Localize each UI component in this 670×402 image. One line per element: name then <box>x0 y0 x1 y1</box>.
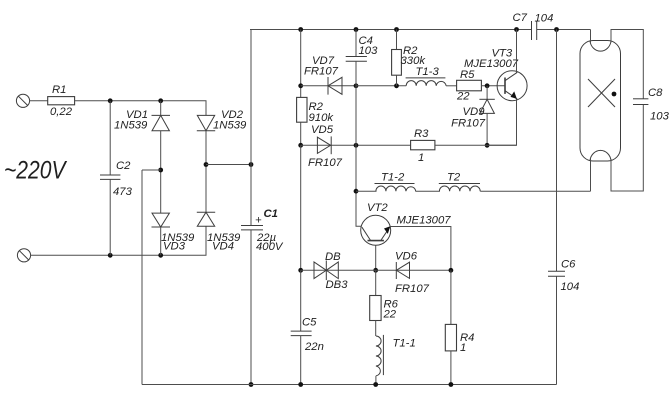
svg-text:R3: R3 <box>414 128 429 140</box>
bottom rail <box>142 384 557 386</box>
node: diac left junction <box>298 268 303 273</box>
resistor R4 <box>445 270 474 384</box>
svg-text:400V: 400V <box>256 241 284 253</box>
diode VD6 FR107 <box>395 251 430 296</box>
input terminal X2 (bottom) <box>17 249 30 262</box>
svg-text:VD6: VD6 <box>395 251 418 263</box>
diode VD2 1N539 <box>197 109 247 132</box>
svg-text:T1-3: T1-3 <box>416 66 440 78</box>
wire lamp top-left pin <box>590 30 592 43</box>
wire VT3 collector to top rail <box>516 30 518 73</box>
node: C2 top junction <box>108 98 113 103</box>
node: C4 column at wire 85.8 <box>354 83 359 88</box>
inductor T1-2 <box>375 172 416 192</box>
node: top rail at R2 330k <box>394 27 399 32</box>
lamp cross mark <box>588 79 615 107</box>
node: VD1 cathode junction <box>158 98 163 103</box>
lamp bottom filament dome <box>590 150 611 160</box>
transistor VT2 MJE13007 <box>361 202 452 245</box>
svg-text:~220V: ~220V <box>4 157 67 185</box>
resistor R5 <box>456 69 481 103</box>
top rail right of C7 <box>537 29 591 31</box>
node: C1 at bottom rail <box>249 382 254 387</box>
capacitor C4 <box>346 30 378 86</box>
diode VD3 1N539 <box>152 213 196 252</box>
wire VT2 emitter to R4 column <box>390 227 451 271</box>
svg-text:C8: C8 <box>648 87 663 99</box>
node: top rail at C4 column <box>354 27 359 32</box>
wire VT3 emitter down and to R3 node <box>487 99 516 146</box>
wire lamp bottom-left pin <box>590 159 592 191</box>
svg-text:1: 1 <box>460 342 466 354</box>
wire lamp bottom-right pin to C8 <box>611 105 643 192</box>
svg-text:C5: C5 <box>302 317 317 329</box>
capacitor C8 <box>633 87 670 123</box>
wire plus tap to C1 column <box>206 164 251 166</box>
svg-text:VD4: VD4 <box>212 241 234 253</box>
wire AC2: terminal to VD4 corner <box>31 226 206 255</box>
wire diac node down to C5 <box>300 270 302 331</box>
wire VD1 anode to VD3 anode <box>160 131 162 213</box>
node: plus tap at C1 column <box>249 162 254 167</box>
node: C6 column at top rail <box>554 27 559 32</box>
svg-text:FR107: FR107 <box>308 157 343 169</box>
svg-text:R1: R1 <box>52 84 66 96</box>
node: VD6 anode / emitter / R4 junction <box>449 268 454 273</box>
svg-text:R5: R5 <box>460 69 475 81</box>
wire y=85.8 VD7 node to C4 column <box>301 85 356 87</box>
diode VD1 1N539 <box>114 101 170 132</box>
resistor R3 <box>411 128 435 164</box>
inductor T2 <box>439 172 480 192</box>
wire AC1: R1 to VD2 corner <box>75 101 206 116</box>
svg-text:DB3: DB3 <box>326 279 349 291</box>
svg-text:104: 104 <box>535 13 554 25</box>
svg-text:910k: 910k <box>309 112 335 124</box>
capacitor C5 <box>291 317 324 354</box>
svg-text:VT2: VT2 <box>367 202 388 214</box>
wire R2 910k to VD5 node <box>300 122 302 145</box>
diac DB DB3 <box>314 251 348 291</box>
svg-text:1: 1 <box>418 152 424 164</box>
inductor T1-3 <box>406 66 447 86</box>
node: C2 bottom junction <box>108 253 113 258</box>
svg-text:22: 22 <box>456 91 470 103</box>
node: VD9 anode / R3 right junction <box>485 143 490 148</box>
svg-text:0,22: 0,22 <box>50 106 73 118</box>
wire C6 column down <box>556 30 558 272</box>
svg-text:+: + <box>255 215 262 227</box>
lamp tube EL1 <box>580 41 621 162</box>
lamp top filament dome <box>590 41 611 51</box>
svg-text:T2: T2 <box>447 172 461 184</box>
wire y=191 midpoint to lamp <box>356 190 377 192</box>
svg-text:1N539: 1N539 <box>114 120 148 132</box>
resistor R2 910k <box>297 97 335 124</box>
svg-text:C6: C6 <box>561 259 576 271</box>
svg-text:22n: 22n <box>304 341 324 353</box>
svg-text:FR107: FR107 <box>451 118 486 130</box>
wire negative tap to left column <box>142 169 161 171</box>
capacitor C6 <box>548 259 579 294</box>
wire R5 to VT3 base <box>481 85 505 87</box>
svg-text:VD9: VD9 <box>463 106 486 118</box>
diode VD9 FR107 <box>451 86 495 146</box>
svg-text:22: 22 <box>383 309 397 321</box>
wire left column down to bottom rail <box>141 170 143 385</box>
wire lamp top-right pin to right rail <box>611 30 643 99</box>
svg-text:T1-2: T1-2 <box>381 172 405 184</box>
wire y=145.3 VD5 node to R3 <box>301 144 411 146</box>
svg-text:DB: DB <box>325 251 341 263</box>
svg-text:VD3: VD3 <box>163 241 186 253</box>
node: top rail at VT3 collector <box>514 27 519 32</box>
inductor T1-1 <box>376 321 416 385</box>
node: VD5 anode junction <box>298 143 303 148</box>
node: midpoint column at wire 145.3 <box>354 143 359 148</box>
wire R3 to VT3 emitter corner <box>435 144 517 146</box>
input terminal X1 (top) <box>16 94 29 107</box>
svg-text:103: 103 <box>359 45 379 57</box>
svg-text:FR107: FR107 <box>395 283 430 295</box>
diode VD4 1N539 <box>197 212 241 252</box>
wire C1 bottom to bottom rail <box>250 230 252 385</box>
node: midpoint at wire 191 <box>354 189 359 194</box>
svg-text:VD5: VD5 <box>311 124 334 136</box>
svg-text:473: 473 <box>113 186 133 198</box>
capacitor C2 <box>100 101 133 256</box>
node: VT2 base drive junction <box>373 268 378 273</box>
transistor VT3 MJE13007 <box>464 48 527 101</box>
top rail left segment <box>250 29 532 31</box>
wire VD3 cathode to AC2 <box>160 227 162 255</box>
node: negative tap junction <box>158 168 163 173</box>
wire x=301 column top rail to R2 910k <box>300 30 302 98</box>
wire terminal to R1 <box>30 100 48 102</box>
svg-text:103: 103 <box>650 111 670 123</box>
svg-text:MJE13007: MJE13007 <box>464 58 519 70</box>
wire y=85.8 C4 column to T1-3 <box>356 85 406 87</box>
node: R4 at bottom rail <box>449 382 454 387</box>
midpoint column x=356 down to VT2 collector <box>356 86 361 227</box>
wire C5 to bottom rail <box>300 336 302 385</box>
wire VT2 base down to drive node <box>375 245 377 270</box>
resistor R2 330k <box>392 30 427 86</box>
node: VT3 base / VD9 junction <box>485 83 490 88</box>
diode VD5 FR107 <box>308 124 343 169</box>
node: plus tap at VD2/VD4 column <box>204 162 209 167</box>
svg-text:104: 104 <box>561 281 580 293</box>
wire y=270.3 diac node to VD6 to R4 column <box>301 269 451 271</box>
wire C6 bottom to bottom rail <box>556 276 558 384</box>
node: VD7 cathode junction <box>298 83 303 88</box>
node: top rail at x=301 <box>298 27 303 32</box>
capacitor C7 <box>513 12 554 40</box>
resistor R6 <box>370 270 399 320</box>
node: C5 at bottom rail <box>298 382 303 387</box>
lamp dot mark <box>612 92 617 97</box>
wire x=301 column down to diac node <box>300 145 302 270</box>
svg-text:T1-1: T1-1 <box>393 338 416 350</box>
svg-text:FR107: FR107 <box>304 66 339 78</box>
svg-text:MJE13007: MJE13007 <box>397 215 452 227</box>
wire T1-3 to R5 <box>446 85 457 87</box>
svg-text:C1: C1 <box>264 208 278 220</box>
diode VD7 FR107 <box>304 55 342 95</box>
node: T1-1 at bottom rail <box>373 382 378 387</box>
node: VD3 cathode junction <box>158 253 163 258</box>
main positive column x=251 from top rail to C1 <box>250 30 252 226</box>
wire VD2 cathode down to VD4 cathode <box>205 131 207 213</box>
svg-text:1N539: 1N539 <box>213 120 247 132</box>
node: R2 330k bottom junction <box>394 83 399 88</box>
svg-text:C2: C2 <box>116 160 131 172</box>
svg-text:C7: C7 <box>513 12 528 24</box>
resistor R1 <box>48 84 75 118</box>
capacitor C1 electrolytic <box>241 208 284 253</box>
